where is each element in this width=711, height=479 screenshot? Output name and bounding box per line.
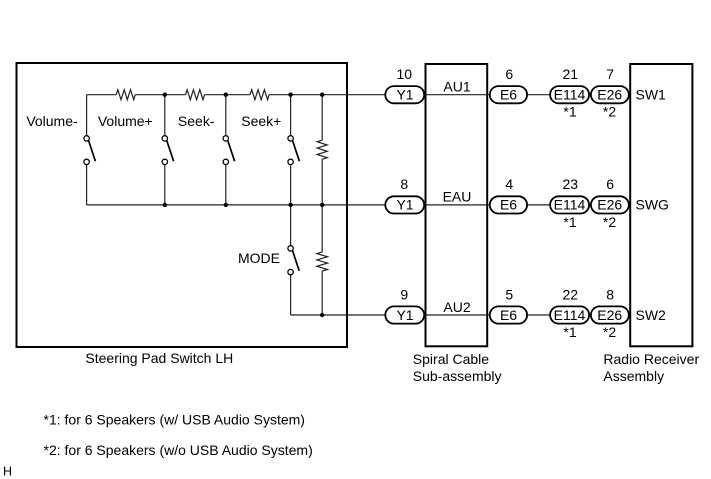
- svg-text:*1: for 6 Speakers (w/ USB Aud: *1: for 6 Speakers (w/ USB Audio System): [44, 411, 305, 427]
- svg-text:E114: E114: [554, 87, 586, 103]
- svg-text:Sub-assembly: Sub-assembly: [413, 368, 502, 384]
- connector E114 pin 22 (row AU2): [550, 306, 589, 323]
- svg-text:E114: E114: [554, 307, 586, 323]
- resistor R3 (between Seek- and Seek+): [250, 90, 269, 100]
- wire: resistor R5 lower lead: [321, 271, 323, 315]
- junction: Seek- column / rail EAU: [224, 203, 228, 207]
- connector E26 pin 8 (row AU2): [591, 306, 629, 323]
- connector E114 pin 23 (row EAU): [550, 196, 589, 213]
- svg-text:6: 6: [606, 176, 614, 192]
- svg-text:*1: *1: [563, 104, 576, 120]
- svg-text:E26: E26: [597, 87, 622, 103]
- wire: Volume+ switch column lower: [164, 165, 166, 205]
- svg-text:Y1: Y1: [396, 87, 413, 103]
- svg-text:5: 5: [505, 286, 513, 302]
- connector E26 pin 6 (row EAU): [591, 196, 629, 213]
- svg-text:MODE: MODE: [238, 250, 280, 266]
- junction: resistor column / rail AU1: [320, 93, 324, 97]
- svg-text:Seek-: Seek-: [178, 113, 215, 129]
- switch SW Volume-: [84, 136, 96, 165]
- junction: Seek- column / rail AU1: [224, 93, 228, 97]
- connector E114 pin 21 (row AU1): [550, 86, 589, 103]
- junction: resistor column / rail EAU: [320, 203, 324, 207]
- connector Y1 pin 9 (row AU2): [385, 306, 424, 323]
- svg-text:Seek+: Seek+: [241, 113, 281, 129]
- junction: Volume+ column / rail EAU: [163, 203, 167, 207]
- wire: resistor column lower lead: [321, 205, 323, 252]
- svg-text:8: 8: [400, 176, 408, 192]
- connector E6 pin 4 (row EAU): [490, 196, 527, 213]
- svg-text:E114: E114: [554, 197, 586, 213]
- svg-text:22: 22: [563, 286, 579, 302]
- svg-text:*1: *1: [563, 214, 576, 230]
- connector E6 pin 6 (row AU1): [490, 86, 527, 103]
- resistor R1 (between Volume- and Volume+): [116, 90, 135, 100]
- svg-text:E6: E6: [500, 307, 517, 323]
- svg-text:*2: *2: [603, 324, 616, 340]
- svg-text:8: 8: [606, 286, 614, 302]
- wire: Seek- switch column upper: [225, 95, 227, 136]
- svg-text:Spiral Cable: Spiral Cable: [413, 351, 489, 367]
- wire: middle rail EAU (net EAU): [87, 204, 631, 206]
- resistor R2 (between Volume+ and Seek-): [186, 90, 205, 100]
- junction: Volume+ column / rail AU1: [163, 93, 167, 97]
- svg-text:SW2: SW2: [636, 307, 667, 323]
- wire: Seek- switch column lower: [225, 165, 227, 205]
- svg-text:E6: E6: [500, 197, 517, 213]
- wire: Volume+ switch column upper: [164, 95, 166, 136]
- svg-text:E26: E26: [597, 307, 622, 323]
- switch SW Volume+: [162, 136, 174, 165]
- box: Steering Pad Switch LH: [17, 63, 348, 347]
- junction: Seek+/MODE column / rail EAU: [288, 203, 292, 207]
- svg-text:23: 23: [563, 176, 579, 192]
- wire: resistor column upper lead: [321, 95, 323, 141]
- svg-text:E26: E26: [597, 197, 622, 213]
- svg-text:Steering Pad Switch LH: Steering Pad Switch LH: [85, 350, 233, 366]
- svg-text:4: 4: [505, 176, 513, 192]
- wire: resistor R4 lower lead: [321, 159, 323, 205]
- svg-text:*2: for 6 Speakers (w/o USB Au: *2: for 6 Speakers (w/o USB Audio System…: [44, 442, 313, 458]
- wire: MODE switch column upper: [290, 205, 292, 246]
- switch SW Seek+: [288, 136, 300, 165]
- switch SW Seek-: [223, 136, 235, 165]
- junction: resistor column / rail AU2: [320, 313, 324, 317]
- svg-text:6: 6: [505, 66, 513, 82]
- svg-text:SW1: SW1: [636, 87, 667, 103]
- box: Radio Receiver Assembly: [630, 64, 692, 346]
- connector E6 pin 5 (row AU2): [490, 306, 527, 323]
- svg-text:H: H: [3, 465, 12, 479]
- wire: Volume- switch column lower: [86, 165, 88, 205]
- wire: Seek+ switch column lower: [290, 165, 292, 205]
- wire: MODE switch column lower: [290, 275, 292, 315]
- junction: Seek+ column / rail AU1: [288, 93, 292, 97]
- svg-text:*1: *1: [563, 324, 576, 340]
- svg-text:*2: *2: [603, 104, 616, 120]
- wire: top rail AU1 (net AU1): [87, 94, 117, 96]
- resistor R5 (vertical, lower): [317, 252, 328, 271]
- switch SW MODE: [288, 246, 299, 275]
- svg-text:EAU: EAU: [443, 189, 472, 205]
- svg-text:7: 7: [606, 66, 614, 82]
- svg-text:Radio Receiver: Radio Receiver: [603, 351, 699, 367]
- svg-text:10: 10: [397, 66, 413, 82]
- svg-text:Assembly: Assembly: [603, 368, 664, 384]
- resistor R4 (vertical, upper): [317, 140, 327, 159]
- connector Y1 pin 10 (row AU1): [385, 86, 424, 103]
- svg-text:SWG: SWG: [636, 197, 669, 213]
- svg-text:AU2: AU2: [443, 299, 470, 315]
- wire: Seek+ switch column upper: [290, 95, 292, 136]
- svg-text:AU1: AU1: [443, 79, 470, 95]
- svg-text:Volume+: Volume+: [98, 113, 153, 129]
- svg-text:Volume-: Volume-: [26, 113, 78, 129]
- svg-text:21: 21: [563, 66, 579, 82]
- wire: bottom rail AU2 (net AU2): [291, 314, 631, 316]
- connector E26 pin 7 (row AU1): [591, 86, 629, 103]
- svg-text:Y1: Y1: [396, 197, 413, 213]
- svg-text:9: 9: [400, 286, 408, 302]
- wire: Volume- switch column upper: [86, 95, 88, 136]
- box: Spiral Cable Sub-assembly: [426, 64, 488, 346]
- svg-text:Y1: Y1: [396, 307, 413, 323]
- connector Y1 pin 8 (row EAU): [385, 196, 424, 213]
- svg-text:*2: *2: [603, 214, 616, 230]
- svg-text:E6: E6: [500, 87, 517, 103]
